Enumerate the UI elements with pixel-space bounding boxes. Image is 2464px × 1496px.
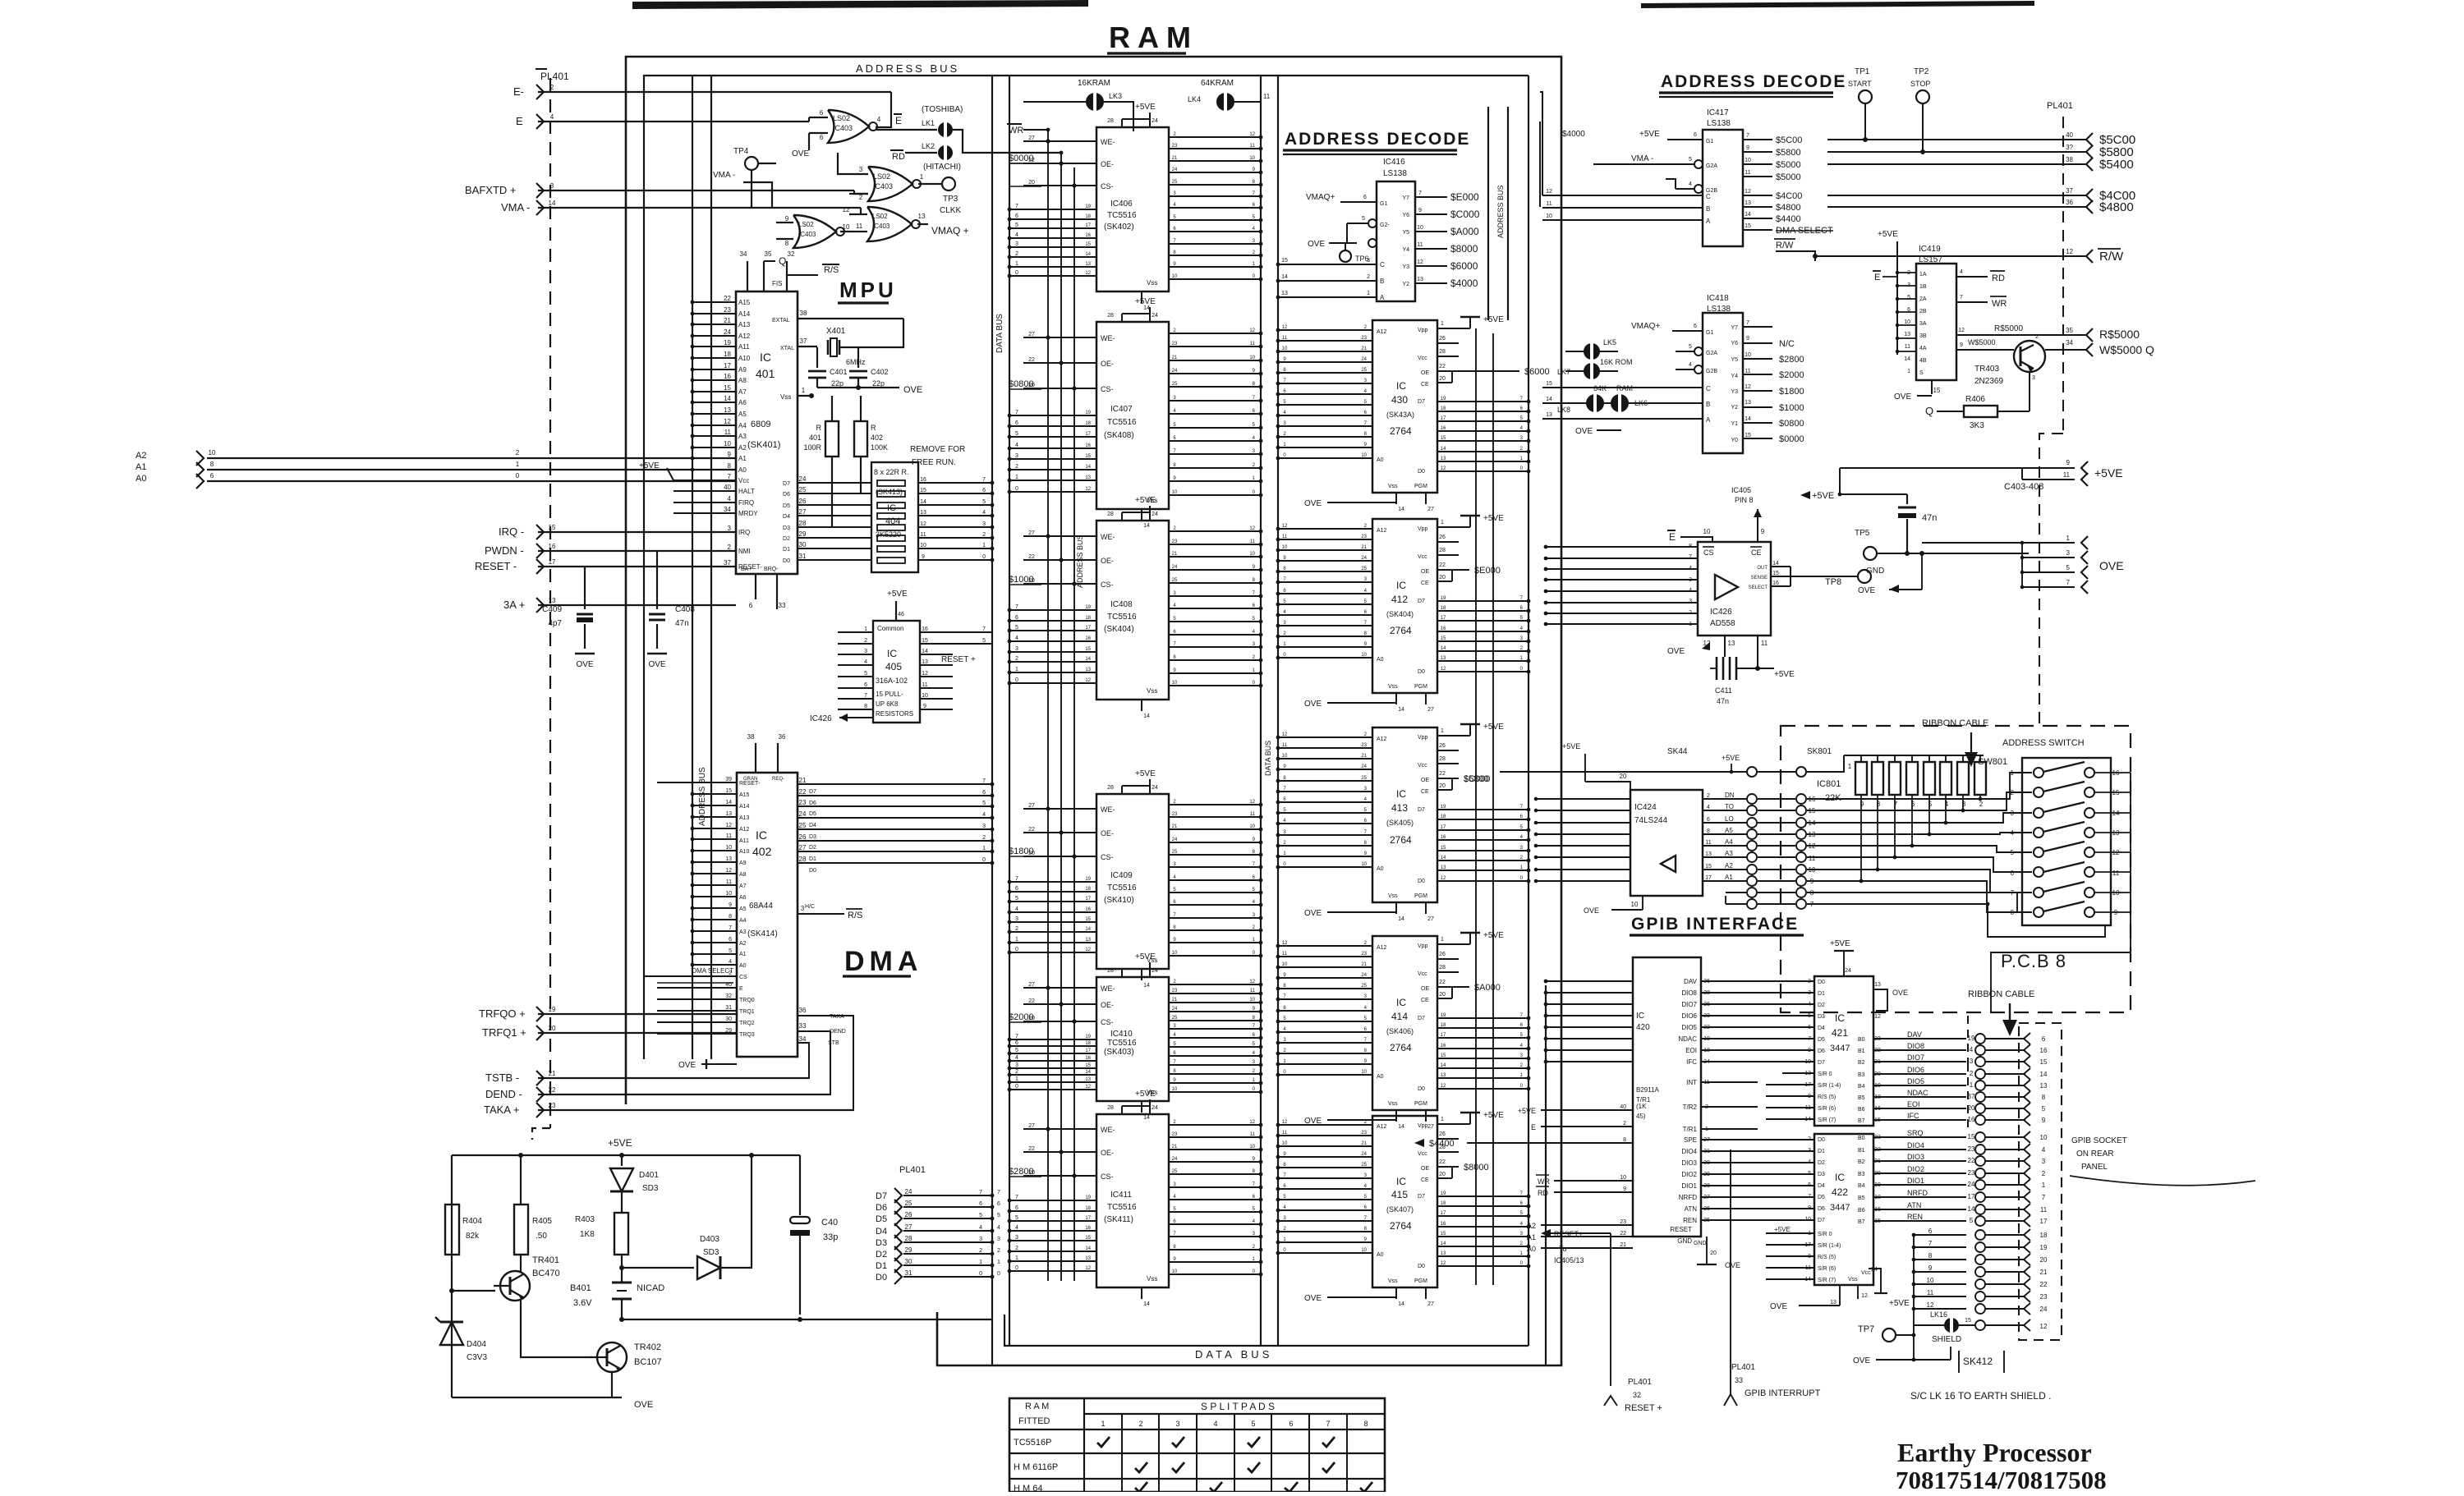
- svg-text:30: 30: [725, 1016, 732, 1022]
- svg-text:IC: IC: [1835, 1012, 1845, 1024]
- IC430 OE CE pins to $6000: [1437, 370, 1519, 372]
- svg-text:R/W: R/W: [2099, 250, 2124, 264]
- svg-text:27: 27: [1028, 982, 1035, 988]
- svg-text:38: 38: [800, 310, 807, 317]
- svg-text:12: 12: [1085, 948, 1091, 952]
- svg-text:DN: DN: [1725, 792, 1735, 799]
- svg-text:Q: Q: [779, 255, 786, 267]
- svg-text:OE-: OE-: [1101, 1149, 1114, 1157]
- svg-text:27: 27: [799, 508, 807, 516]
- svg-text:R/S (5): R/S (5): [1818, 1094, 1836, 1100]
- svg-text:401: 401: [756, 367, 775, 380]
- svg-text:B7: B7: [1858, 1118, 1865, 1124]
- svg-text:22p: 22p: [831, 379, 844, 388]
- svg-text:17: 17: [1441, 1033, 1446, 1038]
- svg-text:3: 3: [801, 905, 805, 912]
- svg-text:18: 18: [1085, 1041, 1091, 1046]
- IC410 control pins WE OE CS: [1023, 987, 1096, 989]
- svg-text:2: 2: [859, 194, 863, 201]
- svg-text:14: 14: [1441, 646, 1446, 651]
- svg-text:XTAL: XTAL: [780, 346, 794, 351]
- switch common wires: [2130, 773, 2131, 952]
- svg-text:0: 0: [979, 1271, 982, 1277]
- svg-text:33: 33: [799, 1022, 807, 1030]
- svg-text:17: 17: [1085, 432, 1091, 437]
- svg-text:12: 12: [1249, 526, 1255, 531]
- svg-text:S/R (7): S/R (7): [1818, 1278, 1836, 1283]
- svg-text:RIBBON CABLE: RIBBON CABLE: [1922, 718, 1988, 728]
- svg-text:Vcc: Vcc: [1418, 356, 1427, 361]
- svg-text:PL401: PL401: [899, 1165, 926, 1175]
- svg-text:OVE: OVE: [648, 660, 665, 669]
- wire IC801-7 to row: [1894, 795, 1896, 857]
- svg-text:D7: D7: [1418, 599, 1425, 604]
- svg-text:7: 7: [982, 626, 986, 632]
- svg-text:A0: A0: [1527, 1245, 1536, 1253]
- svg-text:9: 9: [1746, 145, 1749, 151]
- svg-text:22: 22: [1439, 1159, 1446, 1165]
- svg-text:10: 10: [1631, 901, 1639, 908]
- svg-text:Y3: Y3: [1731, 389, 1738, 395]
- svg-text:TC5516: TC5516: [1107, 613, 1137, 622]
- svg-text:24: 24: [1152, 313, 1158, 319]
- svg-text:REN: REN: [1683, 1217, 1697, 1224]
- IC412 left address pins: [1278, 528, 1372, 530]
- svg-text:A12: A12: [738, 333, 751, 340]
- svg-text:E: E: [1669, 531, 1676, 543]
- svg-text:10: 10: [1361, 862, 1367, 867]
- IC417 outputs: [1743, 139, 1772, 140]
- svg-text:22: 22: [1028, 1146, 1035, 1152]
- svg-text:Vpp: Vpp: [1418, 735, 1428, 741]
- svg-text:DIO1: DIO1: [1681, 1182, 1697, 1190]
- IC419 S pin and OVE: [1931, 380, 1933, 394]
- IC409 left data pins: [1009, 881, 1096, 883]
- ROM column +5VE rails: [1475, 328, 1477, 1285]
- svg-text:ON REAR: ON REAR: [2076, 1150, 2114, 1159]
- capacitor C403-408 47n: [1906, 494, 1908, 504]
- svg-text:12: 12: [1085, 271, 1091, 276]
- svg-text:13: 13: [1705, 851, 1712, 857]
- svg-text:6: 6: [210, 472, 214, 480]
- svg-text:316A-102: 316A-102: [876, 677, 908, 685]
- svg-text:D404: D404: [467, 1340, 486, 1349]
- svg-text:$E000: $E000: [1450, 191, 1479, 203]
- address bus vertical right pair: [1487, 107, 1489, 320]
- svg-text:1: 1: [1441, 520, 1444, 525]
- svg-text:5: 5: [1015, 1215, 1018, 1221]
- svg-text:23: 23: [1172, 144, 1178, 149]
- svg-text:Y4: Y4: [1402, 247, 1409, 253]
- svg-text:15: 15: [1441, 1232, 1446, 1237]
- svg-text:17: 17: [1085, 1049, 1091, 1053]
- switch SW801-3: [2034, 808, 2043, 818]
- svg-text:35: 35: [765, 250, 772, 258]
- svg-text:D7: D7: [783, 481, 790, 487]
- svg-text:D0: D0: [1418, 669, 1425, 675]
- resistor R403 1K8: [614, 1213, 628, 1255]
- svg-text:OVE: OVE: [1894, 392, 1911, 402]
- svg-text:B2: B2: [1858, 1060, 1865, 1066]
- svg-text:A0: A0: [1377, 1252, 1384, 1258]
- svg-text:A0: A0: [136, 474, 146, 484]
- svg-text:24: 24: [1172, 1007, 1178, 1012]
- diode D403 SD3: [622, 1267, 694, 1269]
- svg-text:H/C: H/C: [805, 904, 815, 910]
- svg-text:14: 14: [1904, 356, 1910, 362]
- IC414 OE CE pins to $A000: [1437, 986, 1469, 988]
- svg-text:14: 14: [1398, 507, 1404, 512]
- IC426 left input pins: [1546, 546, 1698, 548]
- svg-text:11: 11: [1250, 1132, 1256, 1137]
- svg-text:0: 0: [1015, 677, 1018, 683]
- svg-text:15: 15: [1546, 381, 1552, 387]
- svg-text:OE-: OE-: [1101, 557, 1114, 565]
- IC413 left address pins: [1278, 737, 1372, 738]
- svg-text:10: 10: [725, 845, 732, 851]
- svg-text:18: 18: [1085, 1206, 1091, 1211]
- svg-text:D2: D2: [809, 845, 816, 851]
- svg-text:$1000: $1000: [1779, 403, 1804, 413]
- svg-text:Vss: Vss: [780, 393, 791, 401]
- svg-text:9: 9: [1623, 1186, 1626, 1192]
- svg-text:6: 6: [1015, 420, 1018, 426]
- split pad LK5 16K ROM: [1565, 351, 1618, 352]
- svg-text:2: 2: [1138, 1420, 1142, 1428]
- svg-text:12: 12: [1745, 189, 1751, 195]
- svg-text:OVE: OVE: [1667, 647, 1685, 656]
- svg-text:16: 16: [920, 477, 926, 483]
- svg-text:20: 20: [1439, 575, 1446, 581]
- svg-text:VMA -: VMA -: [1631, 154, 1653, 163]
- svg-text:SHIELD: SHIELD: [1932, 1335, 1961, 1344]
- svg-text:DATA BUS: DATA BUS: [995, 314, 1004, 353]
- svg-text:TC5516P: TC5516P: [1014, 1438, 1051, 1448]
- svg-text:11: 11: [1282, 535, 1288, 539]
- svg-text:R$5000: R$5000: [2099, 328, 2140, 341]
- svg-text:D403: D403: [700, 1235, 719, 1244]
- svg-text:3: 3: [550, 182, 554, 190]
- svg-text:10: 10: [1546, 213, 1552, 219]
- IC412 Vss PGM pins with OVE: [1395, 693, 1397, 704]
- svg-text:A0: A0: [1377, 1074, 1384, 1080]
- svg-text:14: 14: [1441, 1241, 1446, 1246]
- svg-text:5: 5: [2042, 1105, 2046, 1113]
- svg-text:LK8: LK8: [1557, 406, 1570, 414]
- svg-text:18: 18: [1441, 1023, 1446, 1028]
- svg-text:24: 24: [724, 328, 731, 336]
- svg-text:11: 11: [856, 223, 863, 230]
- svg-text:3: 3: [1689, 599, 1692, 604]
- svg-text:D3: D3: [1818, 1014, 1825, 1020]
- svg-text:26: 26: [799, 833, 807, 841]
- nor gate IC403d: [867, 207, 912, 241]
- svg-text:32: 32: [788, 250, 795, 258]
- svg-text:4: 4: [1689, 566, 1692, 571]
- svg-text:4B: 4B: [1919, 358, 1927, 364]
- svg-text:TAKA +: TAKA +: [484, 1104, 519, 1116]
- svg-text:14: 14: [1398, 1301, 1404, 1307]
- IC419 R$5000 output: [1956, 334, 2086, 336]
- svg-text:D6: D6: [876, 1203, 887, 1213]
- svg-text:1: 1: [1689, 622, 1692, 627]
- svg-text:12: 12: [1958, 328, 1965, 333]
- svg-text:8: 8: [785, 240, 789, 247]
- svg-text:1: 1: [1367, 291, 1370, 296]
- svg-text:10: 10: [1172, 274, 1178, 279]
- svg-text:11: 11: [1705, 840, 1711, 846]
- svg-text:+5VE: +5VE: [1878, 230, 1898, 239]
- svg-text:3: 3: [982, 521, 986, 527]
- svg-text:D5: D5: [783, 503, 790, 509]
- svg-text:13: 13: [724, 406, 731, 414]
- svg-text:7: 7: [1015, 1195, 1018, 1200]
- svg-text:412: 412: [1391, 594, 1408, 605]
- svg-text:D7: D7: [1418, 399, 1425, 405]
- svg-text:C: C: [1706, 193, 1711, 200]
- svg-text:0: 0: [997, 1271, 1000, 1277]
- svg-text:8: 8: [210, 461, 214, 468]
- svg-text:21: 21: [1172, 356, 1178, 360]
- svg-text:C3V3: C3V3: [467, 1353, 487, 1362]
- svg-text:+5VE: +5VE: [1774, 670, 1795, 679]
- svg-text:NDAC: NDAC: [1678, 1035, 1697, 1043]
- svg-text:10: 10: [1904, 319, 1910, 325]
- wire OE rail RAM column: [1060, 153, 1062, 1281]
- svg-text:13: 13: [1281, 291, 1288, 296]
- svg-text:15: 15: [1441, 436, 1446, 441]
- svg-text:22: 22: [799, 788, 807, 796]
- wire IC801-5 to row: [1928, 795, 1930, 834]
- svg-text:6: 6: [820, 134, 824, 141]
- svg-text:28: 28: [905, 1235, 913, 1242]
- svg-text:C401: C401: [830, 368, 848, 376]
- svg-text:5: 5: [1808, 1013, 1811, 1019]
- svg-text:12: 12: [1249, 132, 1255, 137]
- svg-text:+5VE: +5VE: [1135, 103, 1156, 112]
- IC412 OE CE pins to $E000: [1437, 569, 1469, 571]
- svg-text:$5400: $5400: [2099, 158, 2134, 172]
- svg-text:27: 27: [1028, 1123, 1035, 1129]
- svg-text:4: 4: [979, 1225, 982, 1231]
- svg-text:E: E: [1874, 273, 1880, 282]
- svg-text:OE-: OE-: [1101, 360, 1114, 368]
- svg-text:(HITACHI): (HITACHI): [923, 163, 961, 172]
- svg-text:PL401: PL401: [1628, 1378, 1652, 1387]
- svg-text:24: 24: [1152, 785, 1158, 791]
- svg-text:D0: D0: [876, 1273, 887, 1283]
- svg-text:IC406: IC406: [1110, 200, 1133, 209]
- svg-text:LS02: LS02: [872, 213, 888, 220]
- svg-text:4: 4: [1015, 1055, 1018, 1061]
- svg-text:IC405/13: IC405/13: [1554, 1256, 1584, 1264]
- wire shield row 11: [1914, 1296, 1966, 1297]
- svg-text:14: 14: [724, 395, 731, 402]
- svg-text:6: 6: [1808, 1025, 1811, 1030]
- svg-text:21: 21: [1620, 1242, 1626, 1248]
- svg-text:IC: IC: [1396, 997, 1406, 1008]
- wire E long feed: [1539, 122, 1541, 207]
- svg-text:7: 7: [1746, 320, 1749, 326]
- svg-text:B0: B0: [1858, 1037, 1865, 1043]
- svg-text:24: 24: [1152, 968, 1158, 974]
- svg-text:TC5516: TC5516: [1107, 211, 1137, 220]
- svg-text:Vss: Vss: [1388, 484, 1398, 489]
- svg-text:29: 29: [905, 1246, 913, 1254]
- svg-text:BA+: BA+: [741, 567, 752, 572]
- svg-text:68A44: 68A44: [749, 902, 773, 911]
- IC414 right data pins: [1437, 1017, 1529, 1019]
- svg-text:26: 26: [799, 498, 807, 505]
- svg-text:H M 6116P: H M 6116P: [1014, 1462, 1058, 1472]
- svg-text:A4: A4: [738, 422, 747, 429]
- svg-text:21: 21: [1361, 962, 1367, 967]
- svg-text:HALT: HALT: [738, 488, 755, 495]
- svg-text:D2: D2: [1818, 1160, 1825, 1166]
- svg-text:S/C LK 16 TO EARTH SHIELD: S/C LK 16 TO EARTH SHIELD .: [1910, 1390, 2051, 1402]
- svg-text:12: 12: [1085, 487, 1091, 492]
- svg-text:21: 21: [724, 317, 731, 324]
- svg-text:3: 3: [979, 1237, 982, 1242]
- svg-text:NDAC: NDAC: [1907, 1089, 1928, 1097]
- svg-text:DIO7: DIO7: [1907, 1053, 1924, 1062]
- GPIB controller IC420 B2911A box: [1633, 957, 1701, 1237]
- svg-text:S P L I T P A D S: S P L I T P A D S: [1201, 1401, 1275, 1412]
- wire TR401 emitter to TR402 base: [521, 1301, 592, 1357]
- svg-text:38: 38: [747, 733, 755, 741]
- svg-text:16: 16: [724, 373, 731, 380]
- svg-text:8: 8: [1623, 1137, 1626, 1143]
- svg-text:B3: B3: [1858, 1072, 1865, 1078]
- svg-text:4: 4: [2011, 829, 2015, 837]
- svg-text:R405: R405: [532, 1217, 552, 1226]
- svg-text:S/R 0: S/R 0: [1818, 1232, 1832, 1237]
- svg-text:+5VE: +5VE: [1483, 315, 1504, 324]
- svg-text:6: 6: [820, 109, 824, 117]
- svg-text:13: 13: [1745, 200, 1751, 206]
- svg-text:19: 19: [1085, 204, 1091, 209]
- svg-text:10: 10: [725, 891, 732, 897]
- capacitor C411 47n: [1716, 657, 1718, 680]
- svg-text:9: 9: [2066, 459, 2071, 466]
- svg-text:SPE: SPE: [1684, 1136, 1697, 1144]
- svg-text:(SK411): (SK411): [1104, 1215, 1133, 1224]
- svg-text:12: 12: [724, 418, 731, 425]
- svg-text:$2800: $2800: [1779, 355, 1804, 365]
- svg-text:10: 10: [1172, 1269, 1178, 1274]
- svg-text:8: 8: [1707, 828, 1710, 834]
- switch SW801-5: [2034, 847, 2043, 857]
- svg-text:A12: A12: [739, 827, 750, 833]
- svg-text:+5VE: +5VE: [887, 590, 908, 599]
- svg-text:22: 22: [1028, 554, 1035, 560]
- svg-text:DIO1: DIO1: [1907, 1177, 1924, 1185]
- svg-text:R/W: R/W: [1776, 241, 1794, 250]
- transceiver IC421 3447 box: [1814, 976, 1873, 1126]
- svg-text:16: 16: [1772, 581, 1779, 586]
- svg-text:22: 22: [1028, 158, 1035, 163]
- svg-text:D4: D4: [783, 514, 790, 520]
- svg-text:21: 21: [1172, 998, 1178, 1003]
- svg-text:GND: GND: [1677, 1237, 1692, 1245]
- svg-text:12: 12: [1417, 259, 1423, 265]
- svg-text:8: 8: [2011, 909, 2015, 916]
- svg-text:REMOVE FOR: REMOVE FOR: [910, 445, 965, 454]
- svg-text:6: 6: [982, 488, 986, 493]
- svg-text:30: 30: [799, 541, 807, 548]
- svg-text:$4C00: $4C00: [1776, 191, 1802, 201]
- svg-text:CE: CE: [1421, 581, 1429, 586]
- svg-text:1: 1: [1101, 1420, 1105, 1428]
- IC412 right data pins: [1437, 600, 1529, 602]
- data bus pair left of RAM: [991, 76, 993, 1365]
- svg-text:IC: IC: [1396, 580, 1406, 591]
- IC409 control pins WE OE CS: [1023, 808, 1096, 810]
- svg-text:INT: INT: [1686, 1079, 1697, 1086]
- svg-text:7: 7: [2011, 889, 2015, 897]
- svg-text:$1000: $1000: [1009, 575, 1034, 585]
- svg-text:$2000: $2000: [1009, 1012, 1034, 1022]
- svg-text:$1800: $1800: [1779, 387, 1804, 397]
- IC410 right address pins: [1169, 984, 1261, 985]
- svg-text:6: 6: [1015, 615, 1018, 621]
- svg-text:A11: A11: [738, 343, 750, 351]
- RAM chip IC409 TC5516 box: [1096, 794, 1169, 969]
- test point TP8: [1858, 570, 1871, 583]
- svg-text:G1: G1: [1706, 139, 1713, 145]
- svg-text:R/S: R/S: [848, 911, 862, 920]
- svg-text:23: 23: [1968, 1169, 1975, 1177]
- svg-text:70817514/70817508: 70817514/70817508: [1896, 1466, 2107, 1492]
- svg-text:9: 9: [785, 215, 789, 223]
- PL401 dashed boundary line: [549, 78, 551, 1128]
- svg-text:24: 24: [1172, 1157, 1178, 1162]
- svg-text:Earthy Processor: Earthy Processor: [1897, 1438, 2092, 1467]
- svg-text:IC426: IC426: [810, 714, 832, 723]
- svg-text:A12: A12: [1377, 329, 1387, 335]
- svg-text:25: 25: [1361, 368, 1367, 373]
- svg-text:3A +: 3A +: [503, 599, 525, 611]
- svg-text:7: 7: [2042, 1194, 2046, 1201]
- svg-text:23: 23: [1361, 743, 1367, 748]
- svg-text:E-: E-: [513, 85, 524, 98]
- svg-text:$C000: $C000: [1450, 209, 1480, 220]
- svg-text:1: 1: [1015, 261, 1018, 267]
- svg-text:IC: IC: [1396, 788, 1406, 800]
- svg-text:29: 29: [799, 530, 807, 538]
- svg-text:TP8: TP8: [1825, 577, 1841, 587]
- svg-text:A12: A12: [1377, 945, 1387, 951]
- svg-text:ADDRESS DECODE: ADDRESS DECODE: [1661, 72, 1846, 91]
- svg-text:ADDRESS BUS: ADDRESS BUS: [856, 62, 959, 75]
- svg-text:A8: A8: [738, 377, 747, 384]
- battery B401 3.6V NICAD: [612, 1282, 632, 1284]
- svg-text:25: 25: [1361, 984, 1367, 989]
- top border bar left: [632, 0, 1088, 9]
- svg-text:40: 40: [1620, 1104, 1626, 1110]
- svg-text:18: 18: [1441, 1201, 1446, 1206]
- svg-text:64KRAM: 64KRAM: [1201, 79, 1234, 88]
- svg-text:D6: D6: [783, 492, 790, 498]
- svg-text:PL401: PL401: [540, 71, 569, 82]
- wire IC801-8 to row: [1877, 795, 1878, 870]
- svg-text:5: 5: [1689, 344, 1692, 350]
- svg-text:1B: 1B: [1919, 284, 1927, 290]
- svg-text:IC: IC: [1835, 1172, 1845, 1183]
- svg-text:$2800: $2800: [1009, 1167, 1034, 1177]
- IC419 W$5000 output and TR403: [1956, 349, 2014, 351]
- svg-text:LK1: LK1: [922, 119, 935, 127]
